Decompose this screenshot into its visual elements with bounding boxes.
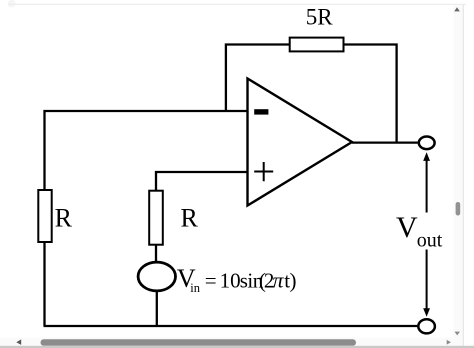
resistor R3 (feedback 5R): [290, 38, 344, 52]
horizontal scrollbar right arrow: [447, 340, 451, 345]
svg-text:V: V: [396, 211, 418, 244]
op-amp U1: [248, 79, 353, 206]
vertical scrollbar thumb: [456, 202, 461, 216]
horizontal scrollbar track: [0, 338, 462, 346]
terminal: output top: [419, 137, 435, 150]
wire: 5R to output node: [344, 45, 397, 143]
resistor R3 value label "5R": [306, 5, 334, 30]
label Vout: [396, 211, 443, 251]
resistor R1 (left R): [38, 190, 51, 242]
svg-text:in: in: [190, 281, 200, 295]
bottom window edge band: [0, 346, 474, 348]
Vout measurement arrow lower segment (arrowhead down): [423, 250, 430, 317]
horizontal scrollbar thumb: [41, 339, 357, 346]
source VS1 (sine source): [138, 262, 175, 291]
source value label "Vin = 10sin(2pi t)": [177, 264, 297, 295]
svg-text:): ): [290, 268, 297, 292]
Vout measurement arrow upper segment (arrowhead up): [423, 152, 430, 212]
wire: bottom rail: [44, 325, 418, 327]
vertical scrollbar down arrow: [455, 332, 461, 336]
resistor R2 value label "R": [181, 204, 199, 233]
resistor R2 (middle R): [149, 191, 163, 245]
svg-text:10: 10: [220, 268, 241, 292]
wire: feedback riser from inverting node to 5R: [226, 45, 290, 112]
wire: source bottom to bottom rail: [156, 291, 158, 327]
wire: R2 bottom to source top: [155, 245, 157, 262]
wire: left node up-and-over to inverting input: [45, 111, 248, 191]
wire: op-amp output to terminal: [352, 141, 418, 143]
faded slider track line across top: [8, 4, 466, 5]
svg-text:R: R: [181, 204, 199, 233]
svg-text:out: out: [417, 229, 443, 251]
svg-text:R: R: [55, 204, 73, 233]
svg-text:5R: 5R: [306, 5, 334, 30]
op-amp U1 non-inverting input marker (+): [254, 162, 273, 181]
vertical scrollbar up arrow: [454, 7, 460, 11]
svg-text:π: π: [272, 267, 284, 292]
vertical scrollbar track: [454, 5, 464, 346]
wire: left branch lower vertical: [43, 242, 45, 326]
resistor R1 value label "R": [55, 204, 73, 233]
faded slider handle top-left: [8, 0, 16, 7]
wire: source branch up-and-over to non-inverting input: [156, 172, 248, 191]
horizontal scrollbar left arrow: [16, 339, 21, 345]
svg-text:=: =: [205, 268, 217, 292]
terminal: output bottom: [418, 319, 435, 333]
op-amp U1 inverting input marker (-): [254, 109, 268, 114]
